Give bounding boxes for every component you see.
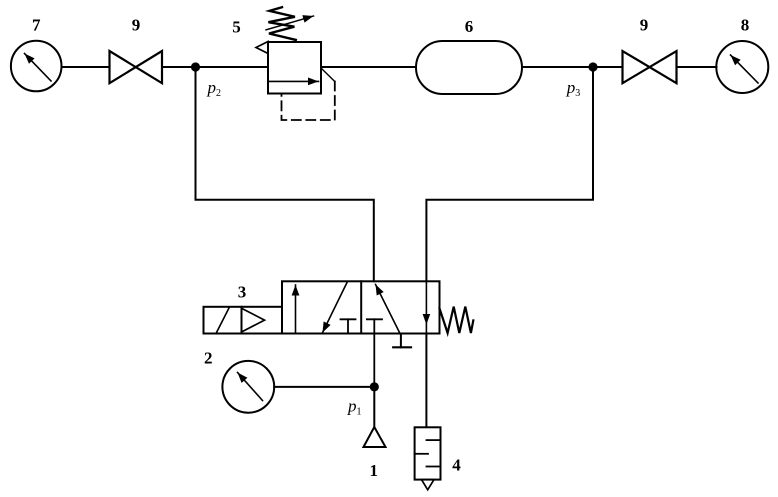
valve 3 body bbox=[282, 281, 440, 333]
svg-text:5: 5 bbox=[232, 18, 241, 37]
source 1 triangle bbox=[364, 427, 386, 447]
throttle 4 internal line a bbox=[427, 439, 441, 441]
wire node p1 to source 1 bbox=[373, 387, 375, 427]
regulator adjust arrow bbox=[266, 16, 314, 30]
valve 3 return spring bbox=[440, 307, 474, 333]
valve 3 right cell diagonal arrow bbox=[376, 284, 401, 333]
svg-text:4: 4 bbox=[452, 456, 461, 475]
throttle 4 internal line b bbox=[415, 453, 428, 455]
svg-text:p3: p3 bbox=[566, 78, 581, 99]
node p3 bbox=[588, 62, 597, 71]
svg-text:p2: p2 bbox=[207, 78, 222, 99]
gauge 8 bbox=[716, 41, 768, 93]
regulator spring bbox=[268, 7, 295, 40]
regulator internal arrow bbox=[268, 80, 319, 82]
svg-text:3: 3 bbox=[238, 282, 247, 301]
wire gauge2 to node p1 bbox=[274, 386, 374, 388]
gauge 7 bbox=[11, 41, 62, 92]
valve 3 left cell blocked port T bbox=[341, 319, 356, 333]
throttle 4 internal line c bbox=[427, 466, 441, 468]
svg-text:2: 2 bbox=[204, 349, 213, 368]
valve 3 left cell diagonal arrow bbox=[323, 282, 348, 333]
svg-text:1: 1 bbox=[370, 461, 379, 480]
svg-text:p1: p1 bbox=[347, 397, 362, 418]
valve 9 (right shut-off) bbox=[623, 51, 677, 83]
wire valve3 to throttle 4 bbox=[425, 334, 427, 427]
solenoid pilot triangle bbox=[242, 308, 265, 332]
svg-text:7: 7 bbox=[32, 16, 41, 35]
wire p3 down to valve3 bbox=[426, 67, 593, 281]
valve 3 right cell through-flow down arrow bbox=[423, 281, 431, 333]
accumulator 6 bbox=[416, 41, 522, 94]
throttle/silencer 4 body bbox=[415, 427, 441, 479]
wire regulator5 to accumulator6 bbox=[321, 66, 416, 68]
solenoid diagonal bbox=[216, 307, 230, 334]
wire valve9L to regulator5 bbox=[162, 66, 268, 68]
regulator vent triangle bbox=[256, 42, 268, 54]
valve 9 (left shut-off) bbox=[110, 51, 163, 83]
regulator pilot dashed line bbox=[282, 82, 335, 121]
wire accumulator6 to valve9R bbox=[522, 66, 623, 68]
gauge 2 bbox=[222, 361, 274, 413]
throttle 4 outlet triangle bbox=[422, 480, 435, 490]
valve 3 right cell blocked port T bbox=[367, 318, 382, 320]
solenoid divider bbox=[241, 307, 243, 334]
svg-text:6: 6 bbox=[465, 17, 474, 36]
solenoid 3 box bbox=[204, 307, 283, 334]
wire valve9R to gauge8 bbox=[677, 66, 717, 68]
svg-text:9: 9 bbox=[132, 16, 141, 35]
regulator pilot diagonal bbox=[321, 68, 335, 82]
valve 3 left cell up arrow bbox=[295, 285, 297, 334]
regulator U5 body bbox=[268, 42, 321, 94]
svg-text:9: 9 bbox=[640, 16, 649, 35]
wire p1 stem through valve to node p1 bbox=[373, 319, 375, 387]
svg-text:8: 8 bbox=[741, 16, 750, 35]
node p1 bbox=[370, 382, 379, 391]
valve 3 position divider bbox=[360, 281, 362, 333]
wire gauge7 to valve9L bbox=[62, 66, 110, 68]
wire p2 down to valve3 bbox=[196, 67, 374, 281]
valve 3 exhaust port T bbox=[393, 334, 411, 348]
node p2 bbox=[191, 62, 200, 71]
